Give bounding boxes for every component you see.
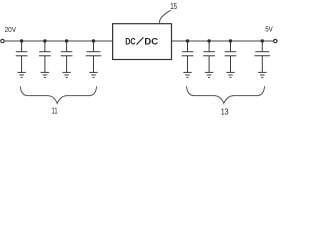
junction dot 1 (output) (186, 39, 189, 42)
capacitor output #2 (203, 41, 215, 72)
ground (input cap 3) (62, 72, 70, 77)
ground (output cap 2) (205, 72, 213, 77)
junction dot 3 (input) (65, 39, 68, 42)
junction dot 4 (output) (261, 39, 264, 42)
capacitor input #2 (39, 41, 51, 72)
label DC/DC (125, 36, 158, 46)
ground (output cap 3) (226, 72, 234, 77)
node: 20V input terminal (1, 39, 4, 42)
svg-text:DC: DC (125, 36, 136, 46)
ground (input cap 4) (89, 72, 97, 77)
wire: input rail (4, 40, 112, 42)
ground (output cap 4) (258, 72, 266, 77)
capacitor output #4 (bulk) (254, 41, 270, 72)
brace: output capacitor group 13 (187, 86, 265, 103)
node: 5V output terminal (274, 39, 277, 42)
capacitor input #4 (bulk) (86, 41, 102, 72)
svg-text:5V: 5V (265, 25, 273, 34)
DC/DC converter 15 (box) (113, 24, 172, 60)
ground (input cap 2) (41, 72, 49, 77)
capacitor output #1 (182, 41, 194, 72)
svg-text:20V: 20V (5, 25, 16, 34)
svg-text:DC: DC (144, 36, 158, 46)
junction dot 2 (output) (207, 39, 210, 42)
brace: input capacitor group 11 (20, 86, 96, 103)
capacitor output #3 (225, 41, 237, 72)
wire: output rail (172, 40, 274, 42)
svg-text:15: 15 (170, 1, 177, 11)
capacitor input #1 (16, 41, 28, 72)
junction dot 2 (input) (43, 39, 46, 42)
svg-text:13: 13 (221, 106, 229, 116)
junction dot 3 (output) (229, 39, 232, 42)
capacitor input #3 (61, 41, 73, 72)
ground (input cap 1) (17, 72, 25, 77)
leader line for 15 (159, 10, 170, 23)
ground (output cap 1) (183, 72, 191, 77)
junction dot 4 (input) (92, 39, 95, 42)
svg-text:11: 11 (52, 106, 58, 115)
junction dot 1 (input) (20, 39, 23, 42)
